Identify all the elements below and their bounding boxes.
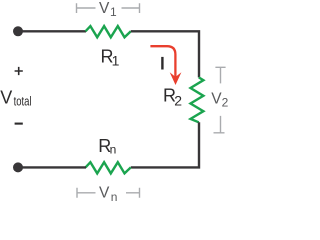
svg-text:1: 1	[110, 5, 117, 19]
current arrow I	[150, 46, 181, 85]
label V_total	[0, 87, 31, 108]
voltage bracket V1	[77, 3, 140, 13]
label I	[161, 57, 163, 70]
resistor R1	[86, 26, 131, 37]
svg-text:V: V	[0, 87, 12, 107]
svg-text:2: 2	[222, 95, 229, 109]
svg-text:V: V	[99, 184, 110, 201]
resistor Rn	[86, 162, 131, 173]
svg-text:2: 2	[174, 92, 182, 108]
label Rn	[98, 136, 116, 157]
label V1	[99, 0, 117, 19]
wire top-right with corner down	[131, 31, 199, 77]
wire bottom-left	[18, 166, 86, 168]
label Vn	[99, 184, 117, 204]
svg-text:V: V	[211, 90, 222, 107]
terminal dot (top left)	[13, 26, 23, 36]
terminal dot (bottom left)	[13, 162, 23, 172]
label R1	[101, 46, 120, 68]
svg-text:n: n	[111, 190, 118, 202]
plus sign	[15, 67, 23, 75]
label V2	[211, 90, 228, 109]
voltage bracket V2	[214, 67, 226, 133]
svg-text:n: n	[110, 142, 117, 156]
voltage bracket Vn	[77, 188, 140, 198]
svg-text:1: 1	[112, 52, 120, 68]
wire right-lower with corner to bottom	[131, 122, 199, 167]
svg-text:total: total	[14, 94, 32, 108]
label R2	[163, 86, 182, 109]
minus sign	[15, 123, 23, 125]
wire top-left	[18, 30, 86, 32]
svg-text:V: V	[99, 0, 110, 17]
resistor R2	[191, 77, 204, 122]
